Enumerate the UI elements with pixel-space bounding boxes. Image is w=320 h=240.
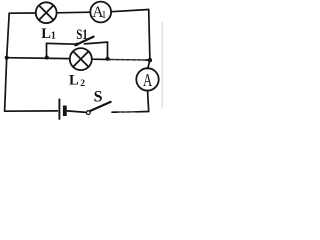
lamp L2 [70,48,92,70]
wire: parallel loop left riser [46,43,48,57]
svg-text:A: A [143,70,152,90]
lamp L1 [36,2,57,23]
svg-text:S: S [94,88,103,105]
switch S1 [75,37,93,46]
svg-text:L: L [41,26,51,42]
wire: left vertical [5,13,10,111]
wire: bottom-left horizontal to battery [5,110,58,112]
svg-text:2: 2 [80,79,85,89]
ammeter A1 [90,2,111,23]
wire: segment between L1 and A1 [57,11,91,14]
svg-text:L: L [69,72,79,88]
wire: middle branch right (L2 to node B) [92,58,110,60]
wire: segment A1 to top-right corner [111,10,149,12]
battery B1 [59,99,64,120]
switch S [86,102,110,115]
node: junction loop right riser / L2 branch [106,57,110,61]
ammeter A [136,68,158,90]
node B: junction on right wire [148,58,152,62]
svg-text:S1: S1 [76,27,88,43]
svg-text:1: 1 [51,31,56,42]
wire: parallel loop top rail right [85,42,108,44]
wire: right vertical upper (corner to node B) [148,10,150,69]
wire: middle branch left (node to L2) [7,57,70,60]
wire: right vertical lower (ammeter to bottom corner) [148,90,149,111]
node: junction loop left riser / L2 branch [45,56,49,60]
wire: parallel loop right riser [107,42,109,59]
wire: top-left horizontal segment [9,12,36,14]
node: junction on left wire [5,56,9,60]
wire: battery to switch S pivot [67,111,86,113]
wire: parallel loop top rail left [47,42,77,45]
wire: bottom-right horizontal to switch S [136,111,149,113]
svg-text:1: 1 [101,10,106,21]
